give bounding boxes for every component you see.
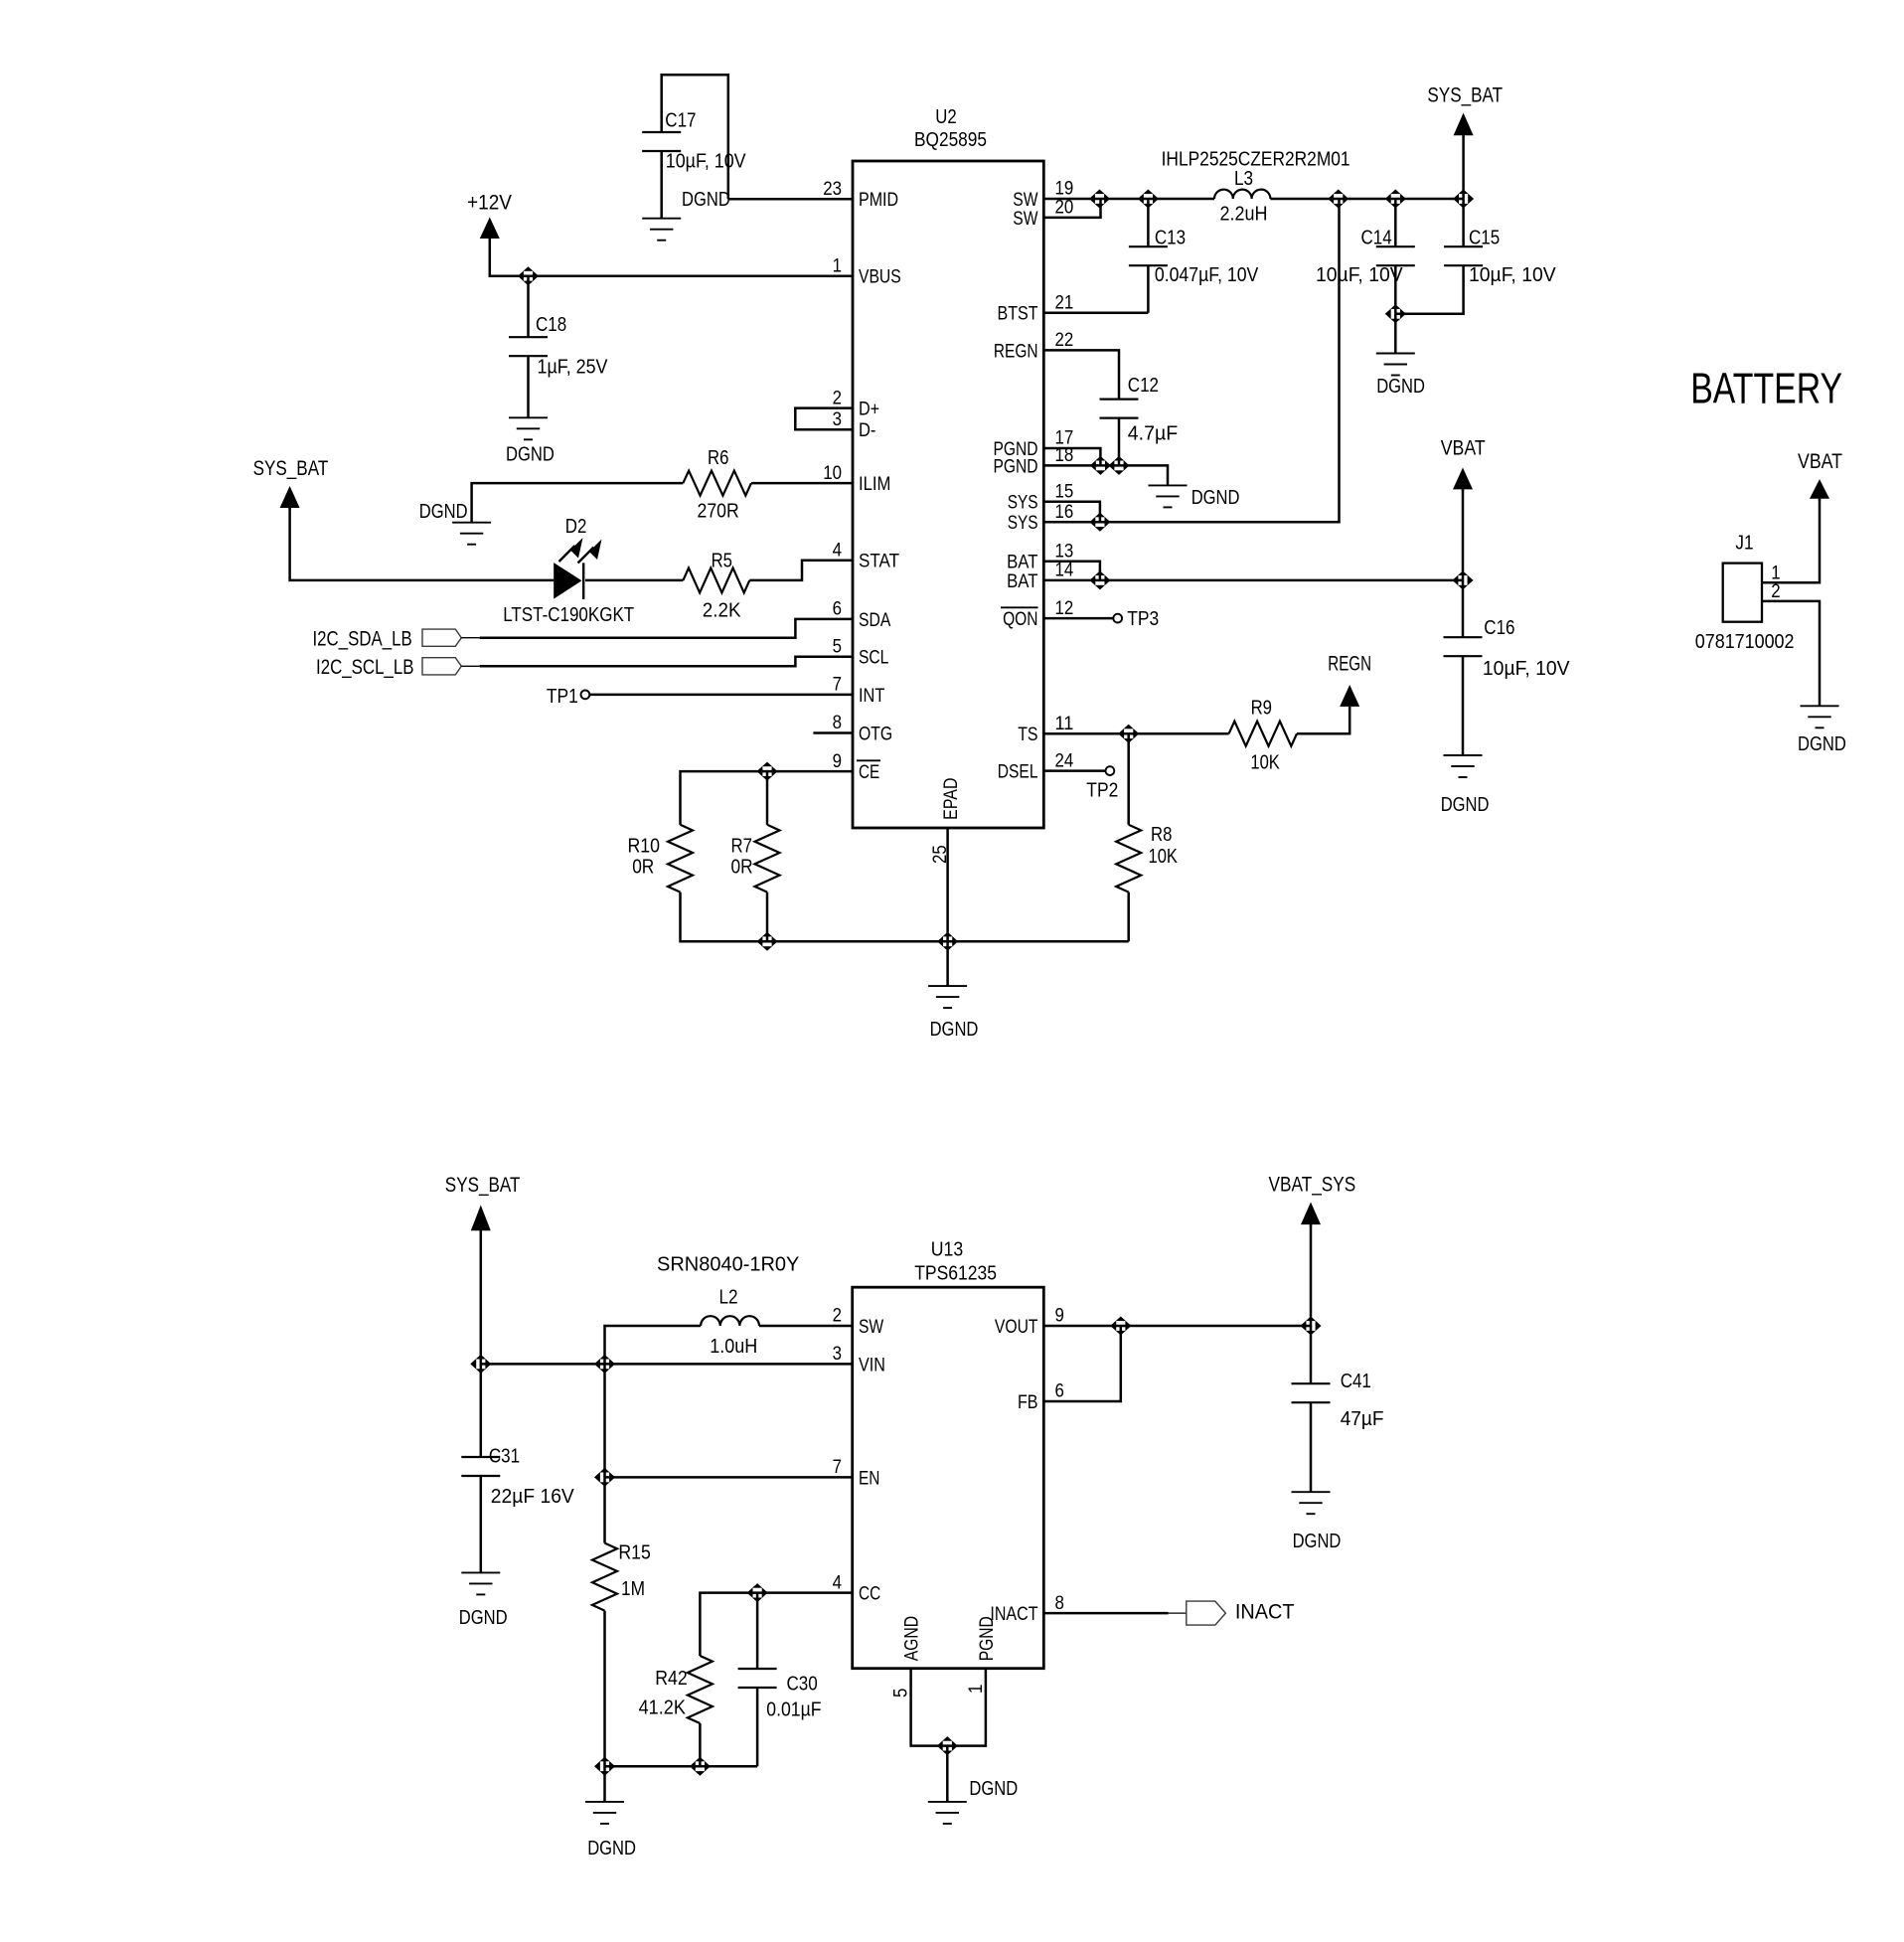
svg-text:EPAD: EPAD — [940, 778, 962, 821]
svg-text:STAT: STAT — [859, 551, 899, 572]
wire D+ D- loop — [795, 408, 853, 430]
capacitor C14 — [1394, 199, 1397, 246]
ground under EPAD — [928, 985, 967, 987]
svg-text:1: 1 — [833, 254, 842, 276]
wire R7 bottom — [766, 892, 769, 942]
svg-text:8: 8 — [833, 712, 842, 733]
svg-text:R7: R7 — [731, 836, 752, 858]
svg-text:VBAT_SYS: VBAT_SYS — [1269, 1173, 1356, 1197]
power flag VBAT battery — [1810, 479, 1829, 499]
ic U13 TPS61235 — [853, 1287, 1044, 1669]
svg-text:DGND: DGND — [930, 1019, 979, 1041]
svg-text:0R: 0R — [731, 857, 753, 879]
connector J1 — [1723, 564, 1762, 622]
junction BAT — [1089, 570, 1110, 589]
wire SYS15 — [1043, 502, 1100, 523]
svg-text:7: 7 — [833, 674, 842, 696]
svg-text:0R: 0R — [632, 857, 654, 879]
svg-text:C15: C15 — [1469, 228, 1500, 249]
ground under U13 — [928, 1801, 967, 1803]
svg-text:L2: L2 — [719, 1287, 738, 1309]
svg-text:EN: EN — [859, 1467, 879, 1489]
ground near PGND — [1149, 484, 1188, 486]
svg-text:11: 11 — [1055, 713, 1074, 734]
svg-text:PGND: PGND — [994, 455, 1038, 477]
wire VBUS — [490, 239, 853, 276]
svg-text:C18: C18 — [536, 314, 566, 336]
ground under C16 — [1444, 754, 1483, 756]
svg-text:2: 2 — [1771, 580, 1780, 602]
svg-text:U13: U13 — [931, 1239, 964, 1261]
svg-text:C14: C14 — [1361, 228, 1392, 249]
led D2 — [554, 563, 581, 599]
resistor R42 — [688, 1656, 713, 1723]
svg-text:SYS: SYS — [1008, 512, 1038, 534]
wire R10 bottom — [681, 892, 1129, 942]
svg-text:R10: R10 — [628, 836, 661, 858]
svg-text:I2C_SDA_LB: I2C_SDA_LB — [313, 627, 412, 651]
svg-text:DSEL: DSEL — [998, 761, 1038, 783]
svg-text:24: 24 — [1055, 749, 1074, 771]
wire INT — [589, 694, 853, 697]
junction CE-R7 — [757, 762, 778, 781]
wire PGND17 — [1043, 448, 1100, 465]
svg-text:QON: QON — [1003, 608, 1037, 630]
svg-text:10K: 10K — [1149, 846, 1179, 868]
capacitor C12 — [1100, 399, 1139, 401]
wire ground bus — [605, 1765, 758, 1768]
junction BAT-VBAT — [1453, 570, 1474, 589]
wire EPAD — [946, 828, 949, 986]
svg-text:1: 1 — [965, 1685, 987, 1694]
resistor R7 — [755, 825, 780, 892]
junction TS-R8 — [1118, 725, 1139, 743]
svg-text:BTST: BTST — [998, 303, 1038, 325]
svg-text:8: 8 — [1055, 1592, 1064, 1614]
capacitor C18 — [527, 276, 530, 338]
svg-text:47µF: 47µF — [1341, 1408, 1384, 1430]
wire CE net — [681, 771, 854, 825]
wire R15 bottom — [603, 1611, 606, 1767]
svg-text:REGN: REGN — [994, 340, 1038, 362]
svg-text:22: 22 — [1055, 329, 1074, 351]
svg-text:DGND: DGND — [1376, 376, 1425, 398]
junction VBUS-C18 — [518, 266, 539, 285]
junction L3-C15 — [1453, 190, 1474, 209]
wire VBAT stem — [1462, 489, 1465, 580]
junction VOUT-C41 — [1301, 1317, 1322, 1336]
capacitor C15 — [1462, 199, 1465, 246]
svg-text:C13: C13 — [1155, 228, 1186, 249]
capacitor C41 — [1310, 1326, 1313, 1383]
svg-text:I2C_SCL_LB: I2C_SCL_LB — [316, 655, 414, 679]
capacitor C17 — [662, 75, 728, 199]
capacitor C16 — [1462, 580, 1465, 637]
junction SW-C13 — [1138, 190, 1159, 209]
svg-text:4.7µF: 4.7µF — [1128, 422, 1178, 444]
inductor L2 — [701, 1316, 759, 1326]
svg-text:0.047µF, 10V: 0.047µF, 10V — [1155, 264, 1259, 286]
junction SW20 — [1089, 190, 1110, 209]
wire SDA — [480, 619, 853, 638]
wire INACT — [1043, 1612, 1168, 1615]
svg-text:TP1: TP1 — [547, 686, 578, 708]
svg-text:1M: 1M — [621, 1578, 645, 1600]
junction EN — [594, 1468, 615, 1487]
svg-text:1µF, 25V: 1µF, 25V — [538, 357, 608, 379]
svg-text:3: 3 — [833, 408, 842, 430]
svg-text:D+: D+ — [859, 399, 879, 420]
svg-text:DGND: DGND — [1798, 733, 1846, 755]
wire DSEL — [1043, 769, 1105, 772]
svg-text:SYS_BAT: SYS_BAT — [253, 456, 329, 480]
svg-text:15: 15 — [1055, 480, 1074, 502]
svg-text:4: 4 — [833, 539, 843, 561]
svg-text:0781710002: 0781710002 — [1695, 631, 1795, 653]
svg-text:1.0uH: 1.0uH — [710, 1336, 757, 1358]
svg-text:10µF, 10V: 10µF, 10V — [1483, 658, 1570, 680]
junction AGND-PGND — [937, 1736, 958, 1755]
svg-text:R6: R6 — [708, 447, 728, 469]
capacitor C30 — [756, 1593, 759, 1669]
svg-text:3: 3 — [833, 1343, 842, 1365]
svg-text:DGND: DGND — [1191, 487, 1240, 509]
svg-text:CC: CC — [859, 1583, 880, 1605]
svg-text:5: 5 — [890, 1688, 912, 1698]
svg-text:IHLP2525CZER2R2M01: IHLP2525CZER2R2M01 — [1162, 149, 1350, 171]
wire EN — [605, 1476, 853, 1479]
svg-text:10µF, 10V: 10µF, 10V — [1316, 264, 1403, 286]
svg-text:DGND: DGND — [682, 189, 730, 211]
svg-text:DGND: DGND — [969, 1778, 1018, 1800]
capacitor C13 — [1147, 199, 1150, 246]
power flag SYS_BAT bottom — [471, 1206, 491, 1231]
power flag VBAT_SYS — [1301, 1203, 1321, 1225]
wire FB — [1043, 1326, 1121, 1401]
svg-text:2: 2 — [833, 1305, 842, 1327]
svg-text:6: 6 — [1055, 1380, 1064, 1402]
svg-text:R9: R9 — [1251, 697, 1272, 719]
testpoint TP2 — [1106, 766, 1115, 775]
junction R42 bottom — [690, 1757, 711, 1776]
wire ILIM — [751, 482, 853, 485]
svg-text:DGND: DGND — [459, 1607, 508, 1629]
wire BTST — [1043, 311, 1148, 314]
junction CC — [747, 1583, 768, 1602]
svg-text:SYS: SYS — [1008, 492, 1038, 514]
junction VIN — [594, 1355, 615, 1374]
wire PMID — [728, 198, 853, 201]
wire C14 to ground — [1394, 314, 1397, 354]
ground near ILIM — [452, 522, 491, 524]
wire R7 top — [766, 771, 769, 825]
svg-text:C17: C17 — [665, 109, 696, 131]
wire TS — [1043, 732, 1228, 735]
resistor R8 — [1127, 733, 1130, 825]
ground under C14 — [1376, 353, 1415, 355]
svg-text:5: 5 — [833, 636, 843, 658]
wire AGND — [911, 1669, 986, 1746]
svg-text:SRN8040-1R0Y: SRN8040-1R0Y — [657, 1254, 800, 1276]
svg-text:VBAT: VBAT — [1798, 449, 1842, 473]
junction L3-C14 — [1385, 190, 1406, 209]
resistor R6 — [683, 471, 751, 496]
svg-text:SW: SW — [1013, 208, 1038, 230]
svg-text:VIN: VIN — [859, 1354, 885, 1376]
svg-text:9: 9 — [1055, 1305, 1064, 1327]
svg-text:C30: C30 — [787, 1673, 818, 1695]
svg-text:25: 25 — [929, 845, 951, 864]
svg-text:7: 7 — [833, 1456, 842, 1478]
svg-text:SW: SW — [859, 1316, 884, 1338]
wire PGND18 — [1043, 465, 1168, 485]
svg-text:BATTERY: BATTERY — [1690, 366, 1842, 413]
junction L3-SYS — [1328, 190, 1349, 209]
power flag VBAT right — [1453, 468, 1473, 490]
svg-text:PGND: PGND — [976, 1616, 998, 1661]
net label I2C_SDA_LB — [422, 629, 461, 646]
svg-text:VOUT: VOUT — [995, 1316, 1038, 1338]
junction EPAD — [937, 932, 958, 951]
svg-text:C12: C12 — [1128, 375, 1159, 397]
svg-text:SYS_BAT: SYS_BAT — [445, 1173, 521, 1197]
wire BAT14 — [1043, 579, 1463, 582]
svg-text:DGND: DGND — [1441, 794, 1490, 816]
junction PGND — [1090, 456, 1111, 475]
ground under J1 — [1801, 705, 1839, 707]
svg-text:SYS_BAT: SYS_BAT — [1427, 83, 1503, 107]
wire STAT — [749, 561, 853, 580]
svg-text:10µF, 10V: 10µF, 10V — [1469, 264, 1556, 286]
svg-text:18: 18 — [1055, 444, 1074, 466]
junction C31 — [470, 1355, 491, 1374]
svg-text:REGN: REGN — [1328, 652, 1371, 676]
svg-text:VBUS: VBUS — [859, 266, 901, 288]
svg-text:D2: D2 — [565, 516, 587, 538]
wire VOUT — [1043, 1224, 1311, 1326]
inductor L3 — [1214, 190, 1270, 199]
resistor R5 — [683, 567, 749, 592]
svg-text:2: 2 — [833, 387, 842, 408]
svg-text:TPS61235: TPS61235 — [914, 1263, 997, 1285]
capacitor C31 — [480, 1364, 483, 1457]
svg-text:BAT: BAT — [1007, 570, 1037, 592]
svg-text:10: 10 — [823, 462, 842, 484]
svg-text:10µF, 10V: 10µF, 10V — [666, 151, 746, 173]
wire CC to R42 — [700, 1593, 757, 1656]
svg-text:14: 14 — [1055, 560, 1074, 581]
svg-text:6: 6 — [833, 598, 842, 620]
resistor R10 — [668, 825, 693, 892]
svg-text:DGND: DGND — [506, 444, 555, 466]
svg-text:C16: C16 — [1484, 617, 1514, 639]
svg-text:20: 20 — [1055, 197, 1074, 219]
svg-text:R8: R8 — [1151, 824, 1172, 846]
resistor R15 — [592, 1543, 617, 1611]
svg-text:41.2K: 41.2K — [639, 1698, 687, 1719]
svg-text:9: 9 — [833, 750, 842, 772]
svg-text:D-: D- — [859, 419, 875, 441]
wire SYS_BAT stem — [1462, 135, 1465, 199]
wire SW pin20 — [1043, 199, 1100, 218]
svg-text:CE: CE — [859, 761, 879, 783]
svg-text:AGND: AGND — [901, 1616, 923, 1661]
wire OTG stub — [813, 731, 853, 734]
power flag +12V — [480, 218, 500, 240]
svg-text:INT: INT — [859, 685, 884, 707]
svg-text:270R: 270R — [698, 500, 739, 522]
svg-text:DGND: DGND — [419, 501, 468, 523]
svg-text:INACT: INACT — [1235, 1599, 1295, 1623]
svg-text:DGND: DGND — [587, 1838, 636, 1860]
svg-text:R15: R15 — [618, 1542, 651, 1564]
testpoint TP1 — [581, 691, 590, 700]
wire R9 to REGN — [1297, 707, 1349, 733]
svg-text:J1: J1 — [1735, 533, 1753, 555]
svg-text:L3: L3 — [1234, 168, 1253, 190]
svg-text:BQ25895: BQ25895 — [914, 129, 987, 151]
svg-text:PMID: PMID — [859, 189, 898, 211]
svg-text:22µF 16V: 22µF 16V — [491, 1486, 574, 1508]
wire QON — [1043, 617, 1113, 620]
wire SCL — [480, 657, 853, 667]
svg-text:21: 21 — [1055, 291, 1074, 313]
resistor R9 — [1229, 722, 1297, 746]
svg-text:2.2uH: 2.2uH — [1220, 204, 1268, 226]
wire CC — [757, 1591, 853, 1594]
ic U2 BQ25895 — [853, 161, 1043, 828]
wire LED to R5 — [585, 579, 683, 582]
svg-text:TP3: TP3 — [1127, 608, 1159, 630]
svg-text:4: 4 — [833, 1571, 843, 1593]
wire REGN — [1043, 350, 1119, 399]
wire R6 to ground — [472, 483, 684, 523]
svg-text:LTST-C190KGKT: LTST-C190KGKT — [503, 604, 634, 626]
svg-text:U2: U2 — [935, 106, 956, 128]
svg-text:FB: FB — [1018, 1391, 1038, 1413]
wire SW U13 — [759, 1325, 853, 1328]
ground near C17 — [642, 218, 681, 220]
svg-text:12: 12 — [1055, 597, 1074, 619]
svg-text:DGND: DGND — [1293, 1531, 1342, 1552]
wire R42 bottom — [699, 1723, 702, 1766]
wire EN vertical — [603, 1364, 606, 1542]
svg-text:16: 16 — [1055, 501, 1074, 523]
svg-text:R5: R5 — [712, 551, 732, 572]
svg-text:SDA: SDA — [859, 609, 890, 631]
wire SW net — [1043, 198, 1214, 201]
svg-text:10K: 10K — [1250, 752, 1280, 774]
net label I2C_SCL_LB — [422, 658, 461, 675]
wire SYS16 — [1043, 199, 1339, 522]
svg-text:TP2: TP2 — [1086, 780, 1118, 802]
power flag REGN — [1340, 685, 1359, 707]
junction R15 bottom — [594, 1757, 615, 1776]
wire SYS_BAT to VIN — [481, 1230, 853, 1364]
power flag SYS_BAT left — [280, 486, 300, 508]
junction C12 bottom — [1109, 456, 1130, 475]
ground under C41 — [1292, 1491, 1331, 1493]
svg-text:0.01µF: 0.01µF — [766, 1699, 821, 1720]
wire J1 pin2 — [1762, 601, 1820, 706]
ground under C31 — [461, 1571, 500, 1573]
svg-text:R42: R42 — [655, 1668, 688, 1690]
svg-text:+12V: +12V — [467, 191, 513, 215]
svg-text:ILIM: ILIM — [859, 473, 890, 495]
wire to ground U13 — [946, 1746, 949, 1802]
svg-text:SCL: SCL — [859, 647, 888, 669]
svg-text:OTG: OTG — [859, 723, 892, 744]
wire BAT13 — [1043, 562, 1100, 580]
svg-text:23: 23 — [823, 178, 842, 200]
ground under C18 — [509, 416, 548, 418]
svg-text:C31: C31 — [489, 1446, 520, 1468]
svg-text:VBAT: VBAT — [1441, 436, 1486, 460]
junction C14-C15 — [1385, 304, 1406, 323]
svg-text:TS: TS — [1018, 724, 1037, 745]
junction FB tap — [1110, 1317, 1131, 1336]
testpoint TP3 — [1113, 614, 1122, 623]
power flag SYS_BAT top right — [1454, 113, 1474, 136]
junction SYS — [1089, 513, 1110, 532]
svg-text:C41: C41 — [1341, 1371, 1371, 1392]
wire J1 pin1 — [1762, 499, 1820, 583]
net label INACT — [1187, 1601, 1226, 1625]
wire to ground U13 left — [603, 1766, 606, 1802]
svg-text:2.2K: 2.2K — [703, 600, 741, 622]
junction R7 bottom — [757, 932, 778, 951]
wire STAT net — [290, 508, 555, 580]
ground under R15 — [585, 1801, 624, 1803]
